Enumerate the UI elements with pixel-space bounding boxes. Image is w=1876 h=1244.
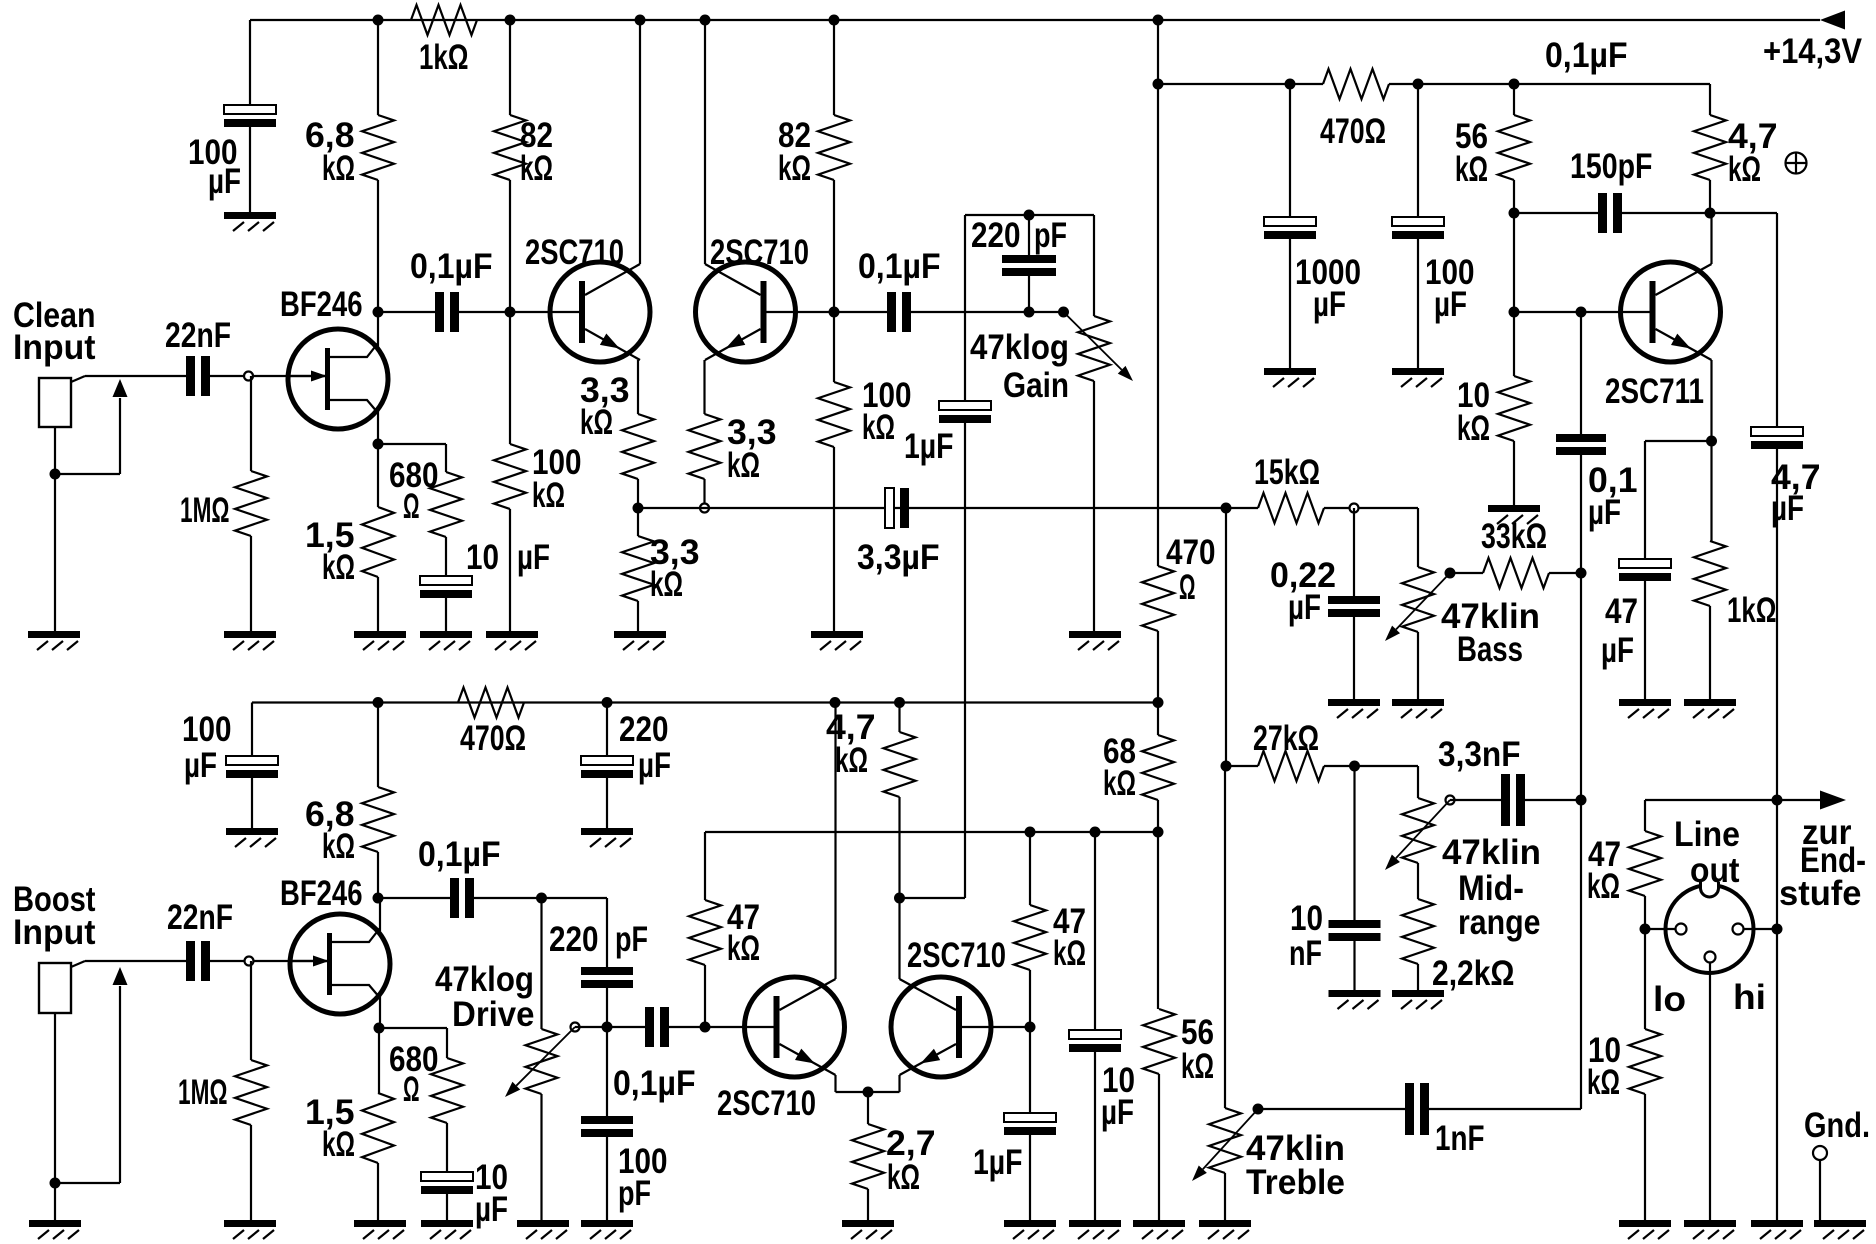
svg-text:kΩ: kΩ xyxy=(727,929,760,968)
capacitor 22nF boost xyxy=(186,941,195,981)
svg-text:1kΩ: 1kΩ xyxy=(419,38,469,77)
svg-text:0,1µF: 0,1µF xyxy=(858,247,941,286)
svg-text:Input: Input xyxy=(13,913,96,952)
junction 150pF left xyxy=(1509,208,1520,219)
svg-text:kΩ: kΩ xyxy=(1457,409,1490,448)
junction bias row 68k xyxy=(1153,827,1164,838)
ground 1uF lower xyxy=(1004,1220,1056,1227)
wire 150pF row right xyxy=(1622,212,1710,214)
resistor 3,3k lower second xyxy=(622,536,654,601)
svg-text:15kΩ: 15kΩ xyxy=(1254,453,1320,492)
ground 3,3k second xyxy=(614,631,666,638)
transistor 2SC710 fourth xyxy=(891,977,991,1077)
wire 47k lineout drop xyxy=(1644,800,1646,831)
svg-text:kΩ: kΩ xyxy=(727,446,760,485)
resistor 6,8k lower xyxy=(362,787,394,852)
junction lower rail x378 xyxy=(373,697,384,708)
svg-text:Gain: Gain xyxy=(1003,366,1069,405)
wiper arrow Treble pot xyxy=(1203,1109,1258,1169)
capacitor 22nF clean xyxy=(186,356,195,396)
wire lower rail corner drop xyxy=(251,703,253,757)
svg-text:220: 220 xyxy=(619,710,669,749)
wire bass pot ground lead xyxy=(1417,632,1419,699)
svg-text:10: 10 xyxy=(466,538,499,577)
svg-text:µF: µF xyxy=(475,1190,508,1229)
wire 0,1uF3 to drive node xyxy=(474,897,607,899)
capacitor 100pF xyxy=(581,1116,633,1124)
svg-text:kΩ: kΩ xyxy=(520,149,553,188)
ground gain pot xyxy=(1069,631,1121,638)
svg-text:kΩ: kΩ xyxy=(580,403,613,442)
svg-text:kΩ: kΩ xyxy=(778,149,811,188)
ground 56k lower xyxy=(1133,1220,1185,1227)
junction drain node first xyxy=(373,307,384,318)
ground 10uF lower xyxy=(421,1220,473,1227)
svg-text:Ω: Ω xyxy=(1179,568,1196,607)
resistor 1M clean xyxy=(235,471,267,536)
ground Gnd terminal xyxy=(1814,1220,1866,1227)
svg-text:pF: pF xyxy=(1034,216,1067,255)
svg-text:Gnd.: Gnd. xyxy=(1804,1106,1870,1145)
resistor 56k upper xyxy=(1498,115,1530,180)
svg-text:0,1µF: 0,1µF xyxy=(418,835,501,874)
wire 22nF boost to gate xyxy=(210,960,327,962)
junction top rail x640 xyxy=(635,15,646,26)
resistor 47k base Q4 xyxy=(1014,905,1046,970)
wire rail x1158 drop xyxy=(1157,20,1159,84)
svg-text:3,3nF: 3,3nF xyxy=(1438,735,1521,774)
resistor 100k first xyxy=(494,444,526,509)
svg-text:2SC711: 2SC711 xyxy=(1605,372,1704,411)
capacitor 0,1uF feedback column xyxy=(1556,434,1606,442)
svg-text:470Ω: 470Ω xyxy=(1320,112,1386,151)
junction rail2 1000uF xyxy=(1285,79,1296,90)
svg-text:47klog: 47klog xyxy=(435,960,534,999)
junction top rail x510 xyxy=(505,15,516,26)
wire boost jack switch xyxy=(55,1182,120,1184)
wire boost jack stub xyxy=(71,961,85,967)
ground treble pot xyxy=(1199,1220,1251,1227)
capacitor 3,3uF xyxy=(885,488,894,528)
svg-text:µF: µF xyxy=(1588,493,1621,532)
svg-text:µF: µF xyxy=(1601,631,1634,670)
svg-text:100: 100 xyxy=(182,710,232,749)
svg-text:kΩ: kΩ xyxy=(322,149,355,188)
ground 100k second xyxy=(811,631,863,638)
transistor 2SC711 xyxy=(1621,262,1721,362)
svg-text:Bass: Bass xyxy=(1457,630,1523,669)
wire jack stub xyxy=(71,376,85,382)
svg-text:22nF: 22nF xyxy=(167,898,233,937)
svg-text:1µF: 1µF xyxy=(904,427,954,466)
ground 1,5k lower xyxy=(354,1220,406,1227)
capacitor 1000uF xyxy=(1264,217,1316,226)
ground 1,5k upper xyxy=(354,631,406,638)
resistor 6,8k upper xyxy=(362,115,394,180)
wire gain column elbow xyxy=(900,897,966,899)
jfet BF246 first xyxy=(288,329,388,429)
svg-text:Treble: Treble xyxy=(1246,1163,1345,1202)
resistor 4,7k collector xyxy=(1694,115,1726,180)
pin hi of DIN xyxy=(1733,924,1744,935)
junction base Q4 node xyxy=(1025,1022,1036,1033)
node gate BF246 second xyxy=(245,957,254,966)
ground 47uF xyxy=(1619,699,1671,706)
svg-text:2SC710: 2SC710 xyxy=(907,936,1006,975)
capacitor 10uF lower xyxy=(421,1172,473,1181)
wire second rail b xyxy=(1389,83,1710,85)
wire bass wiper to 33k xyxy=(1450,572,1483,574)
wire clean jack to 22nF xyxy=(85,375,186,377)
junction output column xyxy=(1772,795,1783,806)
svg-text:µF: µF xyxy=(638,746,671,785)
ground 10k line out xyxy=(1619,1220,1671,1227)
junction feedback 15k xyxy=(1221,503,1232,514)
wire bass pot drop xyxy=(1417,508,1419,567)
wire line out feed xyxy=(1645,799,1822,801)
wire bias row 832 xyxy=(705,831,1158,833)
capacitor 220pF second xyxy=(581,967,633,975)
svg-text:µF: µF xyxy=(1288,588,1321,627)
svg-text:kΩ: kΩ xyxy=(322,548,355,587)
svg-text:470: 470 xyxy=(1166,533,1216,572)
wire BF246#2 drain xyxy=(379,898,381,931)
potentiometer 47klin Bass xyxy=(1402,567,1434,632)
input jack Boost xyxy=(39,963,71,1013)
svg-text:µF: µF xyxy=(208,162,241,201)
wire tone column upper xyxy=(1225,508,1227,766)
junction 27k row xyxy=(1221,761,1232,772)
junction box top 220pF xyxy=(1024,210,1035,221)
wire lower supply rail xyxy=(252,701,1158,703)
junction base Q1 bias xyxy=(505,307,516,318)
svg-text:µF: µF xyxy=(1771,489,1804,528)
ground 10nF xyxy=(1329,990,1381,997)
svg-text:kΩ: kΩ xyxy=(1181,1047,1214,1086)
capacitor 10uF upper xyxy=(420,576,472,585)
wire 220pF top lead xyxy=(1028,215,1030,255)
capacitor 220pF first xyxy=(1002,255,1056,263)
svg-text:1µF: 1µF xyxy=(973,1143,1023,1182)
wire top supply rail xyxy=(250,19,1820,21)
resistor 3,3k Q1 emitter xyxy=(622,414,654,479)
wire Q3 collector xyxy=(834,703,836,980)
capacitor 1nF xyxy=(1405,1083,1414,1135)
resistor 470 ohm lower rail xyxy=(458,688,524,718)
wire Q1 collector xyxy=(639,20,641,264)
potentiometer 47klin Mid-range xyxy=(1402,798,1434,863)
svg-text:1MΩ: 1MΩ xyxy=(180,491,230,530)
resistor 1M boost xyxy=(235,1060,267,1125)
wire BF246#2 source xyxy=(379,996,381,1028)
wire source node to 680 xyxy=(378,443,446,445)
connector DIN Line out xyxy=(1666,885,1754,973)
wire lo pin lead xyxy=(1645,928,1675,930)
svg-text:0,1µF: 0,1µF xyxy=(1545,36,1628,75)
junction rail2 100uF xyxy=(1413,79,1424,90)
junction bias row 47k4 xyxy=(1025,827,1036,838)
arrow +14,3V supply input xyxy=(1820,11,1845,30)
wire BF246#1 source xyxy=(377,411,379,444)
arrow zur Endstufe xyxy=(1820,791,1846,810)
wire column 33k to 3,3nF xyxy=(1580,573,1582,800)
wire output column to hi xyxy=(1776,800,1778,929)
wire clean switch arrow stem xyxy=(119,398,121,474)
resistor 2,2k xyxy=(1402,899,1434,964)
svg-text:Line: Line xyxy=(1674,815,1740,854)
ground DIN center pin xyxy=(1684,1220,1736,1227)
wire box left upper xyxy=(964,215,966,401)
junction 220pF bottom node xyxy=(1024,307,1035,318)
ground 2,2k xyxy=(1392,990,1444,997)
svg-text:Ω: Ω xyxy=(403,487,420,526)
wire clean jack switch xyxy=(55,473,120,475)
svg-text:22nF: 22nF xyxy=(165,316,231,355)
junction base Q2 bias xyxy=(829,307,840,318)
wire clean jack ground lead xyxy=(54,427,56,632)
wire hi pin lead xyxy=(1744,928,1777,930)
svg-text:kΩ: kΩ xyxy=(1587,867,1620,906)
svg-text:out: out xyxy=(1690,851,1740,890)
wire output cap drop xyxy=(1776,213,1778,427)
resistor 1,5k upper xyxy=(362,507,394,577)
wire drain to 0,1uF xyxy=(378,311,435,313)
svg-text:47klin: 47klin xyxy=(1442,833,1541,872)
junction lower rail x1158 xyxy=(1153,697,1164,708)
svg-text:µF: µF xyxy=(1101,1093,1134,1132)
junction collector 2SC711 xyxy=(1705,208,1716,219)
junction 0,1uF tap xyxy=(1576,307,1587,318)
svg-text:0,1µF: 0,1µF xyxy=(410,247,493,286)
wire column 3,3nF to 1nF xyxy=(1580,800,1582,1109)
ground 1M clean xyxy=(224,631,276,638)
svg-text:kΩ: kΩ xyxy=(532,476,565,515)
svg-text:470Ω: 470Ω xyxy=(460,719,526,758)
resistor 3,3k Q2 emitter xyxy=(689,414,721,479)
wire box top xyxy=(965,214,1094,216)
svg-text:2,2kΩ: 2,2kΩ xyxy=(1432,954,1515,993)
junction drain node second xyxy=(373,893,384,904)
svg-text:47klog: 47klog xyxy=(970,328,1069,367)
wire feedback row xyxy=(638,507,1226,509)
svg-text:kΩ: kΩ xyxy=(862,408,895,447)
wire 2SC711 emitter xyxy=(1710,360,1712,441)
wire Q2 collector xyxy=(704,20,706,264)
svg-text:1MΩ: 1MΩ xyxy=(178,1073,228,1112)
terminal Gnd. xyxy=(1813,1146,1827,1160)
pin gnd of DIN xyxy=(1705,952,1716,963)
junction treble wiper xyxy=(1253,1104,1264,1115)
potentiometer 47klog Drive xyxy=(526,1029,558,1094)
junction hi pin node xyxy=(1772,924,1783,935)
resistor 10k line out xyxy=(1629,1029,1661,1094)
junction rail2 56k xyxy=(1509,79,1520,90)
wire 0,1uF2 to gain node xyxy=(911,311,1064,313)
wire boost jack to 22nF xyxy=(85,960,186,962)
node source BF246 first xyxy=(373,439,384,450)
junction base 2SC711 T xyxy=(1509,307,1520,318)
ground clean jack xyxy=(28,631,80,638)
ground boost jack xyxy=(29,1220,81,1227)
wire 0,1uF4 to base Q3 xyxy=(669,1026,774,1028)
svg-text:Input: Input xyxy=(13,328,96,367)
ground 10uF bias xyxy=(1069,1220,1121,1227)
junction drive wiper xyxy=(571,1023,580,1032)
wire row831 corner to 47k xyxy=(704,832,706,900)
wire base row 2SC711 xyxy=(1514,311,1650,313)
wire mid wiper to 3,3nF xyxy=(1450,799,1501,801)
wire 27k lead b xyxy=(1324,765,1355,767)
ground 1k emitter xyxy=(1684,699,1736,706)
svg-text:kΩ: kΩ xyxy=(1728,150,1761,189)
svg-text:220: 220 xyxy=(971,216,1021,255)
junction emitter 2SC711 xyxy=(1706,436,1717,447)
svg-text:Ω: Ω xyxy=(403,1070,420,1109)
junction gain wiper node xyxy=(1058,307,1069,318)
junction top rail x1158 xyxy=(1153,15,1164,26)
junction clean jack ground xyxy=(50,469,61,480)
svg-text:2SC710: 2SC710 xyxy=(710,233,809,272)
capacitor 0,1uF second xyxy=(887,292,896,332)
wire 1nF to column xyxy=(1429,1108,1581,1110)
wire treble wiper to 1nF xyxy=(1258,1108,1405,1110)
svg-text:stufe: stufe xyxy=(1779,874,1862,913)
junction bias row 10uF xyxy=(1090,827,1101,838)
svg-text:kΩ: kΩ xyxy=(887,1158,920,1197)
junction Q4 collector gain feed xyxy=(894,893,905,904)
resistor 82k second xyxy=(818,115,850,180)
wire emitter row 47uF xyxy=(1645,440,1712,442)
ground 1M boost xyxy=(224,1220,276,1227)
transistor 2SC710 first xyxy=(550,262,650,362)
wire drain2 to 0,1uF xyxy=(378,897,450,899)
ground 100k first xyxy=(486,631,538,638)
input jack Clean xyxy=(39,378,71,427)
svg-text:kΩ: kΩ xyxy=(1455,150,1488,189)
junction base Q3 bias xyxy=(700,1022,711,1033)
junction top rail x833 xyxy=(829,15,840,26)
capacitor 0,1uF third xyxy=(450,878,459,918)
wiper arrow Mid pot xyxy=(1396,800,1450,858)
resistor 1,5k lower xyxy=(362,1093,394,1163)
junction 27k right xyxy=(1349,761,1360,772)
resistor 27k xyxy=(1258,751,1324,781)
svg-text:27kΩ: 27kΩ xyxy=(1253,719,1319,758)
wire din gnd pin lead xyxy=(1709,963,1711,1220)
capacitor 1uF lower xyxy=(1004,1113,1056,1122)
resistor 4,7k lower xyxy=(884,732,916,797)
wire 22nF to gate xyxy=(210,375,325,377)
symbol circle-plus test point xyxy=(1786,153,1807,174)
resistor 2,7k xyxy=(852,1124,884,1189)
wire 27k row to mid pot xyxy=(1355,765,1419,767)
wire 3,3nF to column xyxy=(1525,799,1581,801)
svg-text:kΩ: kΩ xyxy=(835,741,868,780)
wire 2SC711 collector xyxy=(1710,213,1712,264)
junction feedback row left xyxy=(633,503,644,514)
wire drive pot drop xyxy=(540,898,542,1029)
junction shared emitters xyxy=(863,1087,874,1098)
wire hi column ground xyxy=(1776,929,1778,1220)
junction 220pF2 base row xyxy=(602,1022,613,1033)
svg-text:0,1µF: 0,1µF xyxy=(613,1064,696,1103)
capacitor 4,7uF output xyxy=(1751,427,1803,436)
junction drive tap xyxy=(536,893,547,904)
ground 100uF PSU right xyxy=(1392,368,1444,375)
capacitor 1uF first xyxy=(939,401,991,410)
wire boost jack ground lead xyxy=(54,1013,56,1220)
ground 100pF xyxy=(581,1220,633,1227)
svg-text:3,3µF: 3,3µF xyxy=(857,538,940,577)
wire mid pot drop xyxy=(1417,766,1419,798)
junction feedback row Q2 xyxy=(700,504,709,513)
wire Q4 base lead xyxy=(962,1026,1030,1028)
resistor 470 ohm dropper xyxy=(1142,566,1174,631)
wire 15k lead b xyxy=(1324,507,1418,509)
junction 33k column xyxy=(1576,568,1587,579)
resistor 47k base Q3 xyxy=(689,900,721,965)
svg-text:hi: hi xyxy=(1733,978,1766,1017)
transistor 2SC710 second xyxy=(696,262,796,362)
arrow clean switch xyxy=(113,379,128,397)
wire drive wiper lead xyxy=(575,1026,607,1028)
junction 0,22uF tap xyxy=(1350,504,1359,513)
wire second rail a xyxy=(1158,83,1323,85)
svg-text:pF: pF xyxy=(618,1174,651,1213)
wire source node to 680 lower xyxy=(379,1027,447,1029)
svg-text:µF: µF xyxy=(184,746,217,785)
wire 680 top lead xyxy=(445,444,447,472)
wire 0,1uF to base Q1 xyxy=(459,311,579,313)
svg-text:kΩ: kΩ xyxy=(1587,1063,1620,1102)
ground bass pot xyxy=(1392,699,1444,706)
wire gain pot to ground xyxy=(1093,381,1095,631)
junction lower rail x899 xyxy=(894,697,905,708)
svg-text:47: 47 xyxy=(1605,592,1638,631)
resistor 10k bias xyxy=(1498,376,1530,441)
wire tone column lower xyxy=(1224,766,1226,1108)
svg-text:2SC710: 2SC710 xyxy=(717,1084,816,1123)
wire 220pF2 drop xyxy=(606,898,608,967)
svg-text:kΩ: kΩ xyxy=(322,827,355,866)
wire BF246#1 drain xyxy=(377,312,379,346)
resistor 33k xyxy=(1483,558,1549,588)
wiper arrow Drive pot xyxy=(516,1027,575,1086)
svg-text:150pF: 150pF xyxy=(1570,147,1653,186)
wire collector row to output cap xyxy=(1710,212,1777,214)
junction rail2 x1158 xyxy=(1153,79,1164,90)
pin lo of DIN xyxy=(1676,924,1687,935)
node gate BF246 first xyxy=(244,372,253,381)
svg-text:2SC710: 2SC710 xyxy=(525,233,624,272)
resistor 56k lower xyxy=(1143,1009,1175,1074)
resistor 470 ohm PSU xyxy=(1323,69,1389,99)
resistor 15k xyxy=(1258,493,1324,523)
svg-text:µF: µF xyxy=(1434,285,1467,324)
svg-text:µF: µF xyxy=(517,538,550,577)
svg-text:1nF: 1nF xyxy=(1435,1119,1485,1158)
jfet BF246 second xyxy=(290,914,390,1014)
junction lower rail x607 xyxy=(602,697,613,708)
svg-text:pF: pF xyxy=(615,920,648,959)
potentiometer 47klog Gain xyxy=(1078,316,1110,381)
svg-text:+14,3V: +14,3V xyxy=(1763,32,1863,71)
capacitor 3,3nF xyxy=(1501,774,1510,826)
svg-text:µF: µF xyxy=(1313,285,1346,324)
ground 2,7k xyxy=(842,1220,894,1227)
svg-text:10: 10 xyxy=(1290,899,1323,938)
wire gnd terminal xyxy=(1819,1160,1821,1220)
